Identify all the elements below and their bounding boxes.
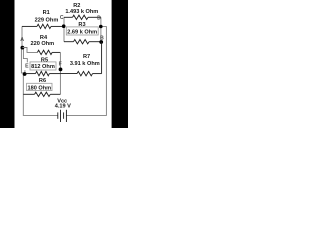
wire: R2 left lead [64, 16, 73, 18]
wire: R7 right lead to B vertical [93, 73, 102, 75]
value box for R5 [30, 62, 56, 70]
svg-text:1.493 k Ohm: 1.493 k Ohm [65, 9, 98, 15]
wire: R1 right lead to R2R3 loop left junction [51, 25, 64, 27]
resistor R2 zigzag [73, 15, 89, 19]
svg-text:R1: R1 [43, 10, 50, 16]
wire: from node B down to R7 row [101, 42, 103, 74]
wire: left rail from R1 corner down to node A [21, 26, 23, 47]
battery Vcc: tall plate (positive, right) [65, 110, 67, 122]
resistor R4 zigzag [37, 50, 52, 54]
wire: R7 left lead from F vertical [60, 73, 77, 75]
node B junction dot [99, 40, 103, 44]
wire: R2 right lead [88, 16, 101, 18]
svg-text:2.69 k Ohm: 2.69 k Ohm [67, 29, 97, 35]
svg-text:3.91 k Ohm: 3.91 k Ohm [70, 61, 100, 67]
svg-text:F: F [59, 62, 62, 68]
node A junction dot [21, 46, 25, 50]
svg-text:R7: R7 [83, 54, 90, 60]
svg-text:E: E [25, 63, 29, 69]
node junction dot right of R2R3 loop [99, 25, 103, 29]
wire: R4 right lead and corner down to node F [52, 51, 60, 53]
svg-text:D: D [97, 16, 101, 22]
resistor R6 zigzag [35, 92, 51, 96]
wire: R3 left lead [64, 41, 74, 43]
wire: R4 jog from node A [22, 48, 37, 53]
battery Vcc: tall plate [60, 110, 62, 122]
svg-text:A: A [20, 37, 24, 43]
resistor R7 zigzag [77, 71, 93, 75]
wire: R5 left lead from node E [25, 73, 36, 75]
battery Vcc: short plate [63, 112, 65, 118]
svg-text:C: C [60, 15, 64, 21]
node F junction dot [59, 68, 63, 72]
wire: bottom rail from battery to bottom-right corner up right rail to top tap [66, 27, 106, 116]
wire: R5 right lead to F vertical [49, 73, 60, 75]
wire: left rail from node E down to bottom-left corner then bottom rail to battery [23, 74, 58, 115]
resistor R1 zigzag [37, 24, 51, 28]
wire: R3 right lead to node B [89, 41, 101, 43]
node junction dot left of R2R3 loop [62, 24, 66, 28]
wire: R2R3 loop left vertical [63, 17, 65, 41]
wire: jog wire from node A toward R5 loop (hidden behind 812 box) [23, 49, 27, 63]
svg-text:812 Ohm: 812 Ohm [31, 64, 55, 70]
resistor R5 zigzag [36, 71, 50, 75]
wire: R1 left lead [22, 25, 37, 27]
node E junction dot [23, 72, 27, 76]
wire: R6 left lead [23, 93, 34, 95]
wire: R2R3 loop right vertical [100, 17, 102, 41]
wire: stub above node E [24, 70, 26, 73]
wire: left rail from node A down, corner to node E [21, 48, 24, 73]
battery Vcc: short plate (negative, left) [57, 112, 59, 118]
svg-text:229 Ohm: 229 Ohm [35, 18, 59, 24]
right black pillarbox bar [112, 0, 128, 128]
svg-text:220 Ohm: 220 Ohm [30, 41, 54, 47]
resistor R3 zigzag [74, 40, 90, 44]
svg-text:R2: R2 [73, 3, 80, 9]
value box for R3 [66, 27, 98, 35]
left black pillarbox bar [0, 0, 15, 128]
svg-text:R4: R4 [40, 35, 48, 41]
wire: R6 right lead to F vertical [50, 93, 60, 95]
svg-text:4.19 V: 4.19 V [55, 104, 71, 110]
svg-text:180 Ohm: 180 Ohm [27, 85, 51, 91]
wire: F vertical from R4 corner down through node F to R5/R7 row [59, 52, 61, 94]
value box for R6 [27, 83, 52, 90]
